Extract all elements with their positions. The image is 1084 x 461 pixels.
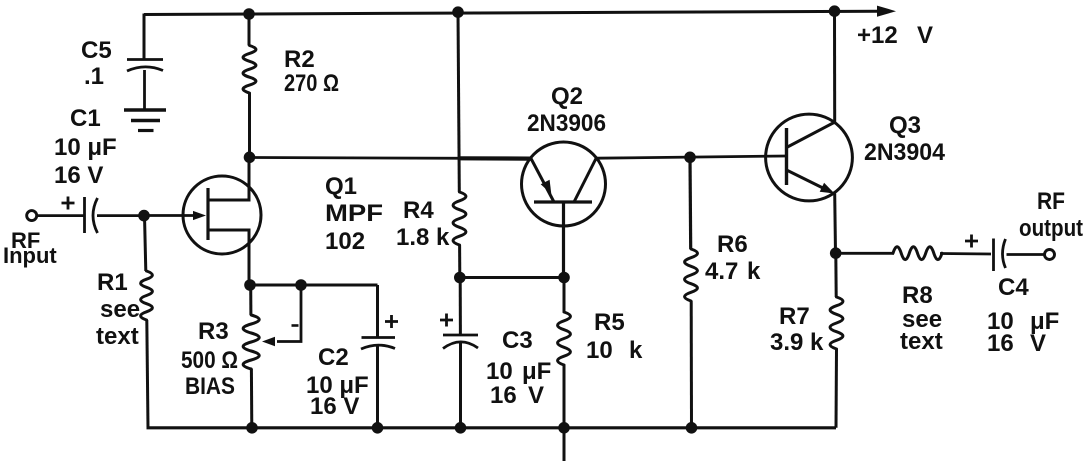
wire: C2 to bottom rail xyxy=(376,346,379,428)
capacitor C4 xyxy=(994,239,1006,272)
junction: wiper/C2 node xyxy=(295,279,307,291)
junction: Q3 emitter/R7/R8 xyxy=(830,247,842,259)
svg-text:R1: R1 xyxy=(97,269,128,296)
svg-text:text: text xyxy=(96,323,139,350)
wire: C5 to ground xyxy=(143,70,146,110)
junction: R4/C3 node xyxy=(454,272,466,284)
ground xyxy=(124,110,166,131)
svg-text:102: 102 xyxy=(325,228,365,255)
wire: node to R5 xyxy=(563,278,566,313)
junction: rail/R2 xyxy=(243,8,255,20)
svg-text:1.8 k: 1.8 k xyxy=(396,224,450,251)
Q3 emitter lead xyxy=(787,170,832,192)
transistor Q2 body xyxy=(522,142,606,226)
Q1 gate bar xyxy=(206,188,209,240)
svg-text:R8: R8 xyxy=(902,282,933,309)
C4 polarity + xyxy=(965,235,978,248)
wire: rail drop to C5 xyxy=(143,14,146,60)
wire: wiper node to C2 xyxy=(301,284,378,287)
svg-text:MPF: MPF xyxy=(325,200,383,227)
Q3 collector lead xyxy=(787,122,836,148)
wire: node to R1 xyxy=(145,216,146,272)
wire: Q3 emitter to output node xyxy=(833,194,837,254)
capacitor C1 xyxy=(85,197,98,233)
wire: node to C3 xyxy=(459,278,462,336)
Q1 source lead xyxy=(209,230,249,285)
gate arrowhead xyxy=(193,211,206,220)
resistor R6 xyxy=(685,249,698,301)
wire: R5 to bottom rail and below xyxy=(563,365,566,461)
wire: R4 node to Q2 base node xyxy=(460,276,564,279)
wire: input terminal to C1 xyxy=(37,214,84,217)
wire: rail to R2 xyxy=(248,14,251,46)
wire: source node to wiper node xyxy=(250,284,301,287)
junction: R3/bottom rail xyxy=(246,422,258,434)
wire: R8 to C4 xyxy=(940,252,991,255)
capacitor C5 xyxy=(127,60,163,72)
wire: Q3 collector to rail xyxy=(833,11,836,122)
svg-text:16 V: 16 V xyxy=(54,162,103,189)
svg-text:BIAS: BIAS xyxy=(185,373,235,400)
wire: Q2 collector to Q3 base xyxy=(596,156,786,158)
svg-text:4.7k: 4.7k xyxy=(705,258,761,285)
R3 wiper arrowhead xyxy=(262,337,275,347)
svg-text:output: output xyxy=(1019,215,1083,242)
R3 wiper tick xyxy=(292,324,299,327)
wire: R7 to bottom rail xyxy=(835,349,839,428)
wire: node to R8 xyxy=(836,252,894,255)
capacitor C3 xyxy=(443,335,478,349)
wire: C4 to output terminal xyxy=(1007,253,1045,256)
svg-text:R7: R7 xyxy=(779,303,810,330)
svg-text:R2: R2 xyxy=(284,46,315,73)
junction: Q1 drain node xyxy=(244,152,256,164)
svg-text:see: see xyxy=(100,296,140,323)
wire: Q1 drain to Q2 emitter xyxy=(249,158,531,159)
svg-text:10 μF: 10 μF xyxy=(54,134,117,161)
svg-text:3.9 k: 3.9 k xyxy=(770,329,824,356)
terminal: RF input xyxy=(27,211,37,221)
resistor R2 xyxy=(243,46,256,94)
svg-text:270 Ω: 270 Ω xyxy=(284,70,339,97)
capacitor C2 xyxy=(361,338,395,350)
wire: R2 to Q1 drain node xyxy=(248,93,251,157)
wire: C2 top lead xyxy=(376,285,379,338)
C2 polarity + xyxy=(385,315,398,328)
Q2 emitter lead xyxy=(531,159,554,203)
junction: rail/Q3 collector xyxy=(829,5,841,17)
svg-text:Input: Input xyxy=(3,243,57,268)
wire: bold segment near Q2 xyxy=(459,156,530,161)
svg-text:C3: C3 xyxy=(502,327,533,354)
resistor R5 xyxy=(558,312,571,365)
svg-text:C2: C2 xyxy=(318,344,349,371)
junction: R6/bottom rail xyxy=(686,422,698,434)
Q2 emitter arrowhead (PNP) xyxy=(541,180,552,194)
resistor R4 xyxy=(453,192,466,245)
transistor Q1 body xyxy=(183,176,261,254)
svg-text:Q2: Q2 xyxy=(551,83,583,110)
svg-text:RF: RF xyxy=(1037,188,1065,215)
R3 wiper xyxy=(277,285,301,342)
svg-text:Q3: Q3 xyxy=(889,112,921,139)
wire: R3 to bottom rail xyxy=(250,369,253,428)
wire: gate node to Q1 gate xyxy=(144,214,196,217)
svg-text:R5: R5 xyxy=(594,309,625,336)
junction: rail/R4 xyxy=(452,6,464,18)
Q3 base bar xyxy=(785,128,788,185)
C1 polarity + xyxy=(62,197,75,210)
Q3 emitter arrowhead (NPN) xyxy=(820,183,835,194)
Q2 collector lead xyxy=(574,159,596,203)
wire: R6 to bottom rail xyxy=(690,301,693,428)
resistor R3 (pot) xyxy=(243,315,259,369)
svg-text:2N3906: 2N3906 xyxy=(527,110,606,137)
Q2 base lead xyxy=(562,202,565,278)
junction: R5/bottom rail xyxy=(558,422,570,434)
wire: bottom rail (ground return) xyxy=(147,426,837,429)
svg-text:text: text xyxy=(900,328,943,355)
C3 polarity + xyxy=(440,314,453,327)
Q1 drain lead xyxy=(209,158,249,201)
svg-text:.1: .1 xyxy=(84,63,104,90)
junction: C2/bottom rail xyxy=(372,422,384,434)
wire: rail to R4 xyxy=(458,12,459,192)
svg-text:R4: R4 xyxy=(403,197,434,224)
wire: C3 to bottom rail xyxy=(459,342,462,428)
wire: node to R3 top xyxy=(249,285,252,315)
Q2 base bar xyxy=(534,200,592,203)
svg-text:2N3904: 2N3904 xyxy=(864,139,946,166)
svg-text:+12V: +12V xyxy=(857,22,933,49)
wire: node to R7 xyxy=(834,253,837,297)
junction: Q1 source/R3 xyxy=(244,279,256,291)
svg-text:Q1: Q1 xyxy=(325,173,357,200)
svg-text:R3: R3 xyxy=(198,318,229,345)
wire: C1 to gate node xyxy=(97,214,144,217)
resistor R8 xyxy=(893,247,942,260)
transistor Q3 body xyxy=(766,114,853,201)
junction: Q2 base/R5 node xyxy=(558,272,570,284)
wire: +12V top rail xyxy=(144,11,878,14)
junction: R6 node xyxy=(684,152,696,164)
power arrow +12V xyxy=(877,6,896,17)
terminal: RF output xyxy=(1045,250,1055,260)
svg-text:C5: C5 xyxy=(81,37,112,64)
svg-text:C1: C1 xyxy=(70,105,101,132)
wire: node to R6 xyxy=(688,157,692,249)
svg-text:C4: C4 xyxy=(998,274,1029,301)
wire: R4 to base node xyxy=(458,245,461,278)
junction: C3/bottom rail xyxy=(455,422,467,434)
svg-text:500 Ω: 500 Ω xyxy=(181,347,238,374)
resistor R1 xyxy=(141,271,153,320)
svg-text:16 V: 16 V xyxy=(310,393,359,420)
junction: gate/R1 node xyxy=(138,210,150,222)
wire: R1 to bottom rail xyxy=(147,320,148,428)
resistor R7 xyxy=(830,297,843,349)
svg-text:R6: R6 xyxy=(717,231,748,258)
